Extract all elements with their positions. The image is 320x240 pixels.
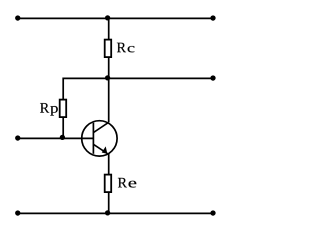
label Rp — [40, 103, 58, 115]
node bottom-right terminal — [210, 210, 215, 215]
node mid-right terminal — [210, 75, 215, 80]
transistor Q1 — [82, 121, 117, 156]
wire top rail to Rc — [108, 18, 110, 39]
node base junction — [60, 135, 65, 140]
resistor Re — [105, 175, 112, 193]
wire mid junction to collector — [108, 78, 110, 122]
node top junction — [105, 15, 110, 20]
node top-right terminal — [210, 15, 215, 20]
wire bottom rail — [18, 212, 213, 214]
node base-left terminal — [15, 135, 20, 140]
wire Re to bottom rail — [108, 192, 110, 213]
wire base rail — [18, 137, 94, 139]
wire top rail — [18, 17, 213, 19]
wire Rp to base rail — [62, 117, 64, 138]
node top-left terminal — [15, 15, 20, 20]
node bottom-left terminal — [15, 210, 20, 215]
wire Rc to mid junction — [108, 57, 110, 78]
label Rc — [117, 43, 135, 53]
resistor Rc — [105, 40, 112, 58]
wire emitter to Re — [108, 154, 110, 175]
resistor Rp — [60, 100, 66, 118]
wire mid junction to Rp branch corner — [63, 78, 108, 99]
node bottom junction — [105, 210, 110, 215]
node mid junction — [105, 75, 110, 80]
wire mid rail right — [109, 77, 213, 79]
label Re — [118, 178, 136, 188]
